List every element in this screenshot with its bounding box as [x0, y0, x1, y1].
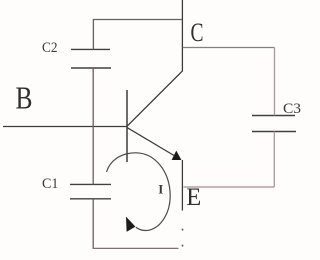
svg-text:C1: C1 — [42, 176, 59, 192]
svg-text:C3: C3 — [283, 101, 301, 117]
svg-text:B: B — [16, 80, 33, 116]
svg-text:C2: C2 — [42, 40, 58, 56]
svg-text:I: I — [158, 182, 163, 197]
svg-text:C: C — [191, 18, 204, 47]
svg-text:E: E — [186, 184, 201, 211]
